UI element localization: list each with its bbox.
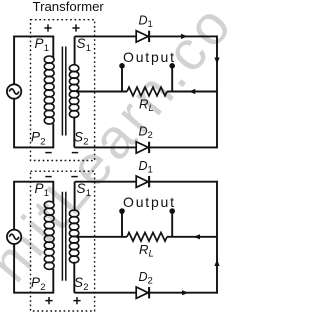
- svg-text:S: S: [74, 130, 83, 145]
- svg-text:2: 2: [148, 130, 153, 141]
- svg-text:1: 1: [86, 43, 91, 54]
- svg-text:S: S: [74, 275, 83, 290]
- svg-text:L: L: [149, 103, 154, 114]
- svg-text:S: S: [77, 181, 86, 196]
- svg-text:P: P: [35, 181, 44, 196]
- svg-text:D: D: [139, 125, 148, 139]
- svg-text:1: 1: [44, 188, 49, 199]
- svg-text:1: 1: [148, 19, 153, 30]
- svg-text:2: 2: [40, 282, 45, 293]
- svg-text:2: 2: [148, 275, 153, 286]
- svg-text:Transformer: Transformer: [33, 0, 105, 14]
- svg-text:S: S: [77, 36, 86, 51]
- svg-text:R: R: [139, 242, 148, 257]
- svg-text:D: D: [139, 270, 148, 284]
- svg-text:2: 2: [83, 282, 88, 293]
- svg-text:R: R: [139, 97, 148, 112]
- svg-text:D: D: [139, 159, 148, 173]
- svg-text:1: 1: [148, 164, 153, 175]
- svg-text:Output: Output: [123, 49, 176, 65]
- svg-text:2: 2: [40, 137, 45, 148]
- svg-text:P: P: [35, 36, 44, 51]
- svg-text:P: P: [31, 130, 40, 145]
- svg-text:P: P: [31, 275, 40, 290]
- svg-text:Output: Output: [123, 194, 176, 210]
- svg-text:1: 1: [44, 43, 49, 54]
- svg-text:1: 1: [86, 188, 91, 199]
- svg-text:D: D: [139, 14, 148, 28]
- svg-text:2: 2: [83, 137, 88, 148]
- svg-text:L: L: [149, 248, 154, 259]
